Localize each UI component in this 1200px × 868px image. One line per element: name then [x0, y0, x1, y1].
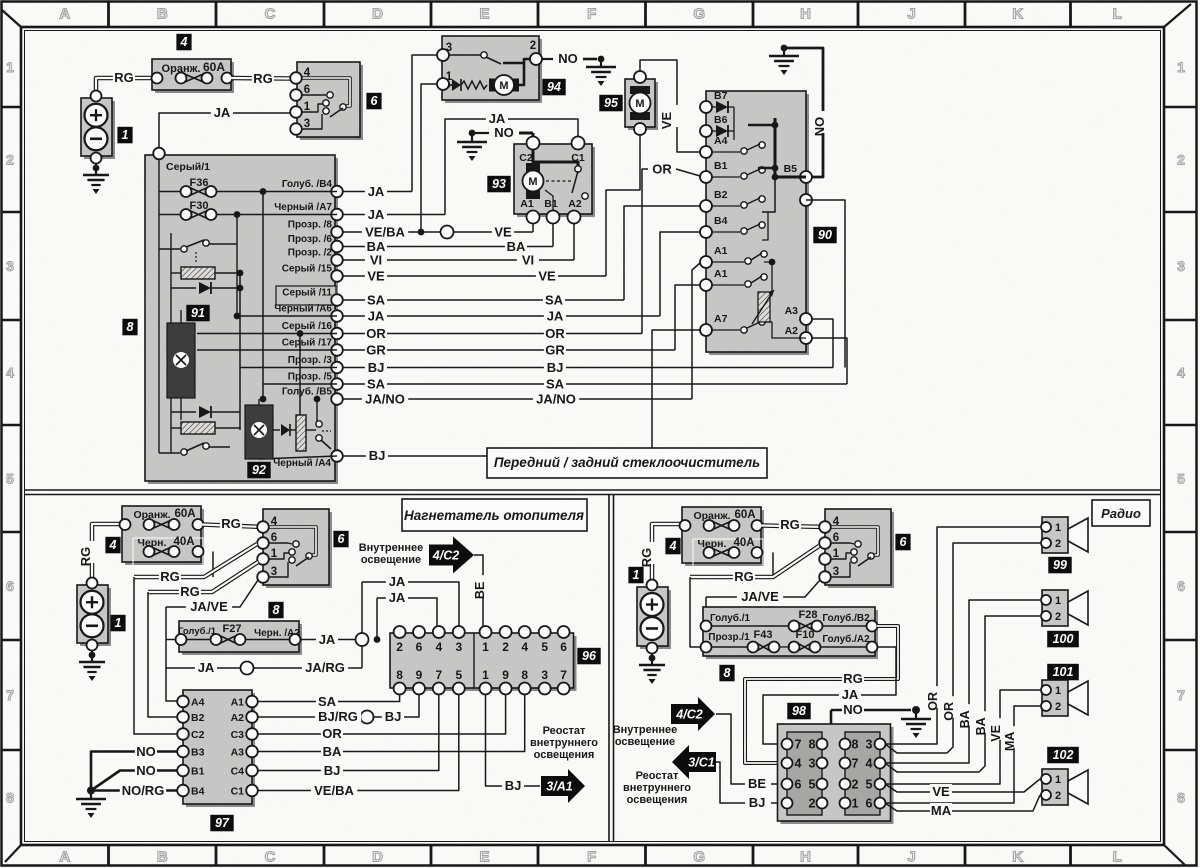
- svg-text:1: 1: [852, 797, 859, 811]
- svg-text:С2: С2: [191, 729, 205, 741]
- svg-text:освещение: освещение: [615, 736, 675, 748]
- svg-text:G: G: [693, 849, 705, 866]
- svg-text:6: 6: [866, 797, 873, 811]
- svg-text:4: 4: [866, 757, 873, 771]
- svg-text:JA: JA: [368, 309, 385, 324]
- svg-text:Нагнетатель отопителя: Нагнетатель отопителя: [404, 508, 584, 523]
- svg-text:3: 3: [304, 118, 310, 130]
- svg-text:VE: VE: [932, 784, 950, 799]
- svg-text:освещение: освещение: [361, 554, 421, 566]
- svg-text:M: M: [528, 176, 537, 188]
- svg-text:OR: OR: [366, 326, 386, 341]
- svg-text:RG: RG: [780, 517, 800, 532]
- svg-text:VE/BA: VE/BA: [314, 783, 354, 798]
- svg-text:RG: RG: [160, 569, 180, 584]
- svg-text:BJ: BJ: [505, 778, 522, 793]
- svg-text:JA: JA: [389, 590, 406, 605]
- svg-text:2: 2: [1177, 152, 1185, 168]
- svg-text:Прозр./1: Прозр./1: [708, 632, 750, 643]
- svg-text:Передний / задний стеклоочисти: Передний / задний стеклоочиститель: [494, 455, 760, 470]
- svg-text:A2: A2: [568, 198, 582, 210]
- svg-text:Серый /17: Серый /17: [282, 338, 333, 349]
- svg-text:7: 7: [435, 668, 442, 682]
- svg-text:H: H: [800, 849, 811, 866]
- svg-text:2: 2: [1055, 701, 1061, 713]
- svg-text:NO: NO: [843, 702, 863, 717]
- svg-text:SA: SA: [318, 694, 337, 709]
- svg-text:5: 5: [541, 640, 548, 654]
- svg-text:JA: JA: [214, 105, 231, 120]
- svg-text:Внутреннее: Внутреннее: [359, 542, 424, 554]
- svg-text:Черный /А7: Черный /А7: [274, 202, 332, 213]
- svg-text:MA: MA: [931, 803, 952, 818]
- svg-text:8: 8: [273, 603, 280, 617]
- svg-text:60A: 60A: [734, 509, 755, 521]
- svg-text:Черный /А4: Черный /А4: [273, 458, 331, 469]
- svg-text:3: 3: [1177, 258, 1185, 274]
- svg-text:GR: GR: [545, 343, 565, 358]
- svg-text:6: 6: [900, 535, 908, 549]
- svg-text:C2: C2: [519, 152, 533, 164]
- svg-text:В1: В1: [191, 766, 205, 778]
- svg-text:1: 1: [633, 568, 640, 582]
- svg-text:OR: OR: [652, 162, 672, 177]
- svg-text:A: A: [59, 6, 70, 23]
- svg-text:4: 4: [833, 516, 840, 528]
- svg-text:E: E: [479, 6, 489, 23]
- svg-text:3: 3: [541, 668, 548, 682]
- svg-text:BE: BE: [748, 776, 766, 791]
- svg-text:RG: RG: [180, 584, 200, 599]
- svg-text:JA: JA: [842, 687, 859, 702]
- svg-text:Прозр. /8: Прозр. /8: [288, 220, 333, 231]
- svg-text:F27: F27: [223, 623, 242, 635]
- svg-text:B2: B2: [714, 189, 728, 201]
- svg-text:B: B: [157, 849, 168, 866]
- svg-text:A3: A3: [785, 305, 799, 317]
- svg-text:D: D: [372, 6, 383, 23]
- svg-text:92: 92: [252, 463, 266, 477]
- svg-text:A7: A7: [714, 313, 728, 325]
- svg-text:5: 5: [1177, 471, 1185, 487]
- svg-text:3/A1: 3/A1: [546, 780, 572, 794]
- svg-text:NO: NO: [812, 117, 827, 137]
- svg-text:L: L: [1113, 6, 1122, 23]
- svg-text:JA/RG: JA/RG: [305, 660, 345, 675]
- svg-text:С3: С3: [231, 729, 245, 741]
- svg-text:Прозр. /3: Прозр. /3: [288, 355, 333, 366]
- svg-text:95: 95: [604, 96, 619, 110]
- svg-text:91: 91: [191, 306, 205, 320]
- svg-text:Прозр. /5: Прозр. /5: [288, 372, 333, 383]
- svg-text:VE: VE: [494, 225, 512, 240]
- svg-text:6: 6: [338, 532, 346, 546]
- svg-text:SA: SA: [367, 293, 386, 308]
- svg-text:VI: VI: [522, 253, 534, 268]
- svg-text:100: 100: [1053, 632, 1074, 646]
- svg-text:А2: А2: [231, 712, 245, 724]
- svg-text:В4: В4: [191, 786, 205, 798]
- svg-text:Серый /16: Серый /16: [282, 321, 333, 332]
- svg-text:А3: А3: [231, 747, 245, 759]
- svg-text:4: 4: [435, 640, 442, 654]
- svg-text:VE/BA: VE/BA: [365, 225, 405, 240]
- svg-text:F10: F10: [796, 629, 815, 641]
- svg-text:A: A: [59, 849, 70, 866]
- svg-text:F43: F43: [754, 629, 773, 641]
- svg-text:VI: VI: [370, 253, 382, 268]
- svg-text:9: 9: [502, 668, 509, 682]
- svg-text:GR: GR: [366, 343, 386, 358]
- svg-text:1: 1: [271, 548, 278, 560]
- svg-text:Голуб./А2: Голуб./А2: [822, 633, 870, 645]
- svg-text:F28: F28: [799, 609, 818, 621]
- svg-text:8: 8: [724, 666, 731, 680]
- svg-text:Серый/1: Серый/1: [166, 161, 210, 173]
- svg-text:BA: BA: [958, 710, 972, 728]
- svg-text:8: 8: [809, 738, 816, 752]
- svg-text:4: 4: [6, 365, 14, 381]
- svg-text:8: 8: [521, 668, 528, 682]
- svg-text:А1: А1: [231, 697, 245, 709]
- svg-text:BJ: BJ: [547, 360, 564, 375]
- svg-text:3: 3: [271, 566, 277, 578]
- svg-text:JA: JA: [368, 184, 385, 199]
- svg-text:H: H: [800, 6, 811, 23]
- svg-text:B4: B4: [714, 215, 728, 227]
- svg-text:SA: SA: [546, 377, 565, 392]
- svg-text:внетруннего: внетруннего: [623, 782, 691, 794]
- svg-text:2: 2: [502, 640, 509, 654]
- svg-text:Прозр. /6: Прозр. /6: [288, 234, 333, 245]
- svg-text:6: 6: [1177, 578, 1185, 594]
- svg-text:1: 1: [1055, 685, 1061, 697]
- svg-text:2: 2: [6, 152, 14, 168]
- svg-text:J: J: [907, 849, 915, 866]
- svg-text:B: B: [157, 6, 168, 23]
- svg-text:SA: SA: [545, 293, 564, 308]
- svg-text:4: 4: [521, 640, 528, 654]
- svg-text:2: 2: [1055, 538, 1061, 550]
- svg-text:94: 94: [547, 80, 561, 94]
- svg-text:8: 8: [396, 668, 403, 682]
- svg-text:G: G: [693, 6, 705, 23]
- svg-text:4: 4: [109, 538, 117, 552]
- svg-text:VE: VE: [659, 112, 674, 130]
- svg-text:6: 6: [795, 778, 802, 792]
- svg-text:98: 98: [792, 704, 806, 718]
- svg-text:8: 8: [1177, 790, 1185, 806]
- svg-text:OR: OR: [942, 702, 956, 721]
- svg-text:1: 1: [482, 640, 489, 654]
- svg-text:NO: NO: [136, 744, 156, 759]
- svg-text:60A: 60A: [174, 508, 195, 520]
- svg-text:Прозр. /2: Прозр. /2: [288, 248, 333, 259]
- svg-text:B7: B7: [714, 90, 728, 102]
- svg-text:L: L: [1113, 849, 1122, 866]
- svg-text:С4: С4: [231, 766, 245, 778]
- svg-text:7: 7: [6, 687, 14, 703]
- svg-text:OR: OR: [926, 692, 940, 711]
- svg-text:RG: RG: [221, 516, 241, 531]
- svg-text:2: 2: [1055, 790, 1061, 802]
- svg-text:7: 7: [1177, 687, 1185, 703]
- svg-text:C: C: [265, 849, 276, 866]
- svg-text:2: 2: [852, 778, 859, 792]
- svg-text:В2: В2: [191, 712, 205, 724]
- svg-text:90: 90: [818, 228, 832, 242]
- svg-text:D: D: [372, 849, 383, 866]
- svg-text:Черный /А6: Черный /А6: [274, 304, 332, 315]
- svg-text:1: 1: [6, 59, 14, 75]
- svg-text:BJ: BJ: [324, 763, 341, 778]
- svg-text:MA: MA: [1003, 732, 1017, 751]
- svg-text:Серый /11: Серый /11: [282, 288, 332, 299]
- svg-text:F: F: [587, 6, 596, 23]
- svg-text:BJ: BJ: [385, 709, 402, 724]
- svg-text:RG: RG: [114, 70, 134, 85]
- svg-text:BJ: BJ: [749, 795, 766, 810]
- svg-text:Голуб. /В5: Голуб. /В5: [282, 386, 333, 398]
- svg-text:6: 6: [416, 640, 423, 654]
- svg-text:2: 2: [396, 640, 403, 654]
- svg-text:3: 3: [455, 640, 462, 654]
- svg-text:A1: A1: [520, 198, 534, 210]
- svg-text:4/C2: 4/C2: [432, 549, 459, 563]
- svg-text:8: 8: [127, 320, 134, 334]
- svg-text:4: 4: [304, 67, 311, 79]
- svg-text:Серый /15: Серый /15: [282, 264, 333, 275]
- svg-text:BE: BE: [473, 582, 487, 599]
- svg-text:1: 1: [115, 616, 122, 630]
- svg-text:3: 3: [6, 258, 14, 274]
- svg-text:M: M: [635, 98, 644, 110]
- svg-text:4: 4: [271, 516, 278, 528]
- svg-text:E: E: [479, 849, 489, 866]
- svg-text:JA: JA: [368, 207, 385, 222]
- svg-text:1: 1: [1177, 59, 1185, 75]
- svg-text:JA: JA: [389, 574, 406, 589]
- svg-text:RG: RG: [734, 569, 754, 584]
- svg-text:внетруннего: внетруннего: [530, 737, 598, 749]
- svg-text:BA: BA: [974, 717, 988, 735]
- svg-text:1: 1: [833, 548, 840, 560]
- svg-text:A2: A2: [785, 325, 799, 337]
- svg-text:7: 7: [560, 668, 567, 682]
- svg-text:BJ/RG: BJ/RG: [318, 709, 358, 724]
- svg-text:OR: OR: [322, 726, 342, 741]
- svg-text:JA/NO: JA/NO: [365, 392, 405, 407]
- svg-text:5: 5: [455, 668, 462, 682]
- svg-text:6: 6: [560, 640, 567, 654]
- svg-text:VE: VE: [367, 269, 385, 284]
- svg-text:F36: F36: [190, 177, 209, 189]
- svg-text:5: 5: [809, 778, 816, 792]
- svg-text:RG: RG: [78, 547, 93, 567]
- svg-text:JA/NO: JA/NO: [536, 392, 576, 407]
- svg-text:4: 4: [1177, 365, 1185, 381]
- svg-text:NO: NO: [558, 51, 578, 66]
- svg-text:3/C1: 3/C1: [688, 756, 714, 770]
- svg-text:JA: JA: [198, 660, 215, 675]
- svg-text:A1: A1: [714, 245, 728, 257]
- svg-text:K: K: [1012, 849, 1023, 866]
- svg-text:99: 99: [1053, 558, 1067, 572]
- svg-text:BJ: BJ: [368, 360, 385, 375]
- svg-text:6: 6: [6, 578, 14, 594]
- svg-text:101: 101: [1053, 665, 1074, 679]
- svg-text:6: 6: [371, 94, 379, 108]
- svg-text:RG: RG: [639, 548, 654, 568]
- svg-text:NO: NO: [494, 125, 514, 140]
- svg-text:1: 1: [122, 128, 129, 142]
- svg-text:5: 5: [6, 471, 14, 487]
- svg-text:А4: А4: [191, 697, 205, 709]
- svg-text:102: 102: [1053, 748, 1074, 762]
- svg-text:Голуб./В2: Голуб./В2: [822, 612, 870, 624]
- svg-text:JA: JA: [489, 111, 506, 126]
- svg-text:J: J: [907, 6, 915, 23]
- svg-text:B1: B1: [714, 160, 728, 172]
- svg-text:Голуб./1: Голуб./1: [710, 612, 751, 624]
- svg-text:Реостат: Реостат: [543, 725, 586, 737]
- svg-text:OR: OR: [545, 326, 565, 341]
- svg-text:93: 93: [492, 177, 506, 191]
- svg-text:4/C2: 4/C2: [675, 708, 702, 722]
- svg-text:6: 6: [271, 532, 277, 544]
- svg-text:2: 2: [1055, 611, 1061, 623]
- svg-text:JA: JA: [547, 309, 564, 324]
- svg-text:97: 97: [215, 816, 230, 830]
- svg-text:5: 5: [866, 778, 873, 792]
- svg-text:4: 4: [180, 35, 188, 49]
- svg-text:освещения: освещения: [627, 794, 688, 806]
- svg-text:B5: B5: [784, 163, 798, 175]
- svg-text:F30: F30: [190, 200, 209, 212]
- svg-text:NO/RG: NO/RG: [122, 783, 165, 798]
- svg-text:M: M: [499, 80, 508, 92]
- svg-text:9: 9: [416, 668, 423, 682]
- svg-text:BA: BA: [323, 744, 342, 759]
- svg-text:VE: VE: [989, 725, 1003, 742]
- svg-text:K: K: [1012, 6, 1023, 23]
- svg-text:2: 2: [809, 797, 816, 811]
- svg-text:8: 8: [6, 790, 14, 806]
- svg-text:A1: A1: [714, 268, 728, 280]
- svg-text:В3: В3: [191, 747, 205, 759]
- svg-text:1: 1: [482, 668, 489, 682]
- svg-text:B6: B6: [714, 114, 728, 126]
- svg-text:1: 1: [304, 101, 311, 113]
- svg-text:7: 7: [852, 757, 859, 771]
- svg-text:Радио: Радио: [1101, 506, 1141, 521]
- svg-text:1: 1: [1055, 774, 1061, 786]
- svg-text:F: F: [587, 849, 596, 866]
- svg-text:96: 96: [582, 649, 597, 663]
- svg-text:VE: VE: [538, 269, 556, 284]
- svg-text:8: 8: [852, 738, 859, 752]
- svg-text:6: 6: [304, 84, 310, 96]
- svg-text:1: 1: [1055, 522, 1061, 534]
- svg-text:3: 3: [809, 757, 816, 771]
- svg-text:C: C: [265, 6, 276, 23]
- svg-text:3: 3: [866, 738, 873, 752]
- svg-text:JA/VE: JA/VE: [741, 589, 779, 604]
- svg-text:NO: NO: [136, 763, 156, 778]
- svg-text:Реостат: Реостат: [636, 770, 679, 782]
- svg-text:С1: С1: [231, 786, 245, 798]
- svg-text:4: 4: [795, 757, 802, 771]
- svg-text:JA/VE: JA/VE: [190, 599, 228, 614]
- svg-text:Внутреннее: Внутреннее: [613, 724, 678, 736]
- svg-text:JA: JA: [319, 632, 336, 647]
- svg-text:освещения: освещения: [534, 749, 595, 761]
- svg-text:3: 3: [833, 566, 839, 578]
- svg-text:2: 2: [530, 40, 536, 52]
- svg-text:4: 4: [669, 539, 677, 553]
- svg-text:SA: SA: [367, 377, 386, 392]
- svg-text:1: 1: [1055, 595, 1061, 607]
- svg-text:RG: RG: [843, 671, 863, 686]
- svg-text:BJ: BJ: [369, 448, 386, 463]
- svg-text:B1: B1: [544, 198, 558, 210]
- svg-text:6: 6: [833, 532, 839, 544]
- svg-text:Голуб. /В4: Голуб. /В4: [282, 178, 333, 190]
- svg-text:7: 7: [795, 738, 802, 752]
- svg-text:RG: RG: [253, 71, 273, 86]
